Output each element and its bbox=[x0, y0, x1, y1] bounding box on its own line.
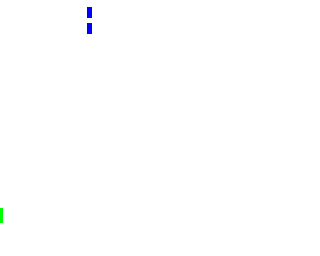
blue dashed wire segment 1 bbox=[87, 7, 92, 18]
green bar bbox=[0, 208, 3, 223]
blue dashed wire segment 2 bbox=[87, 23, 92, 34]
